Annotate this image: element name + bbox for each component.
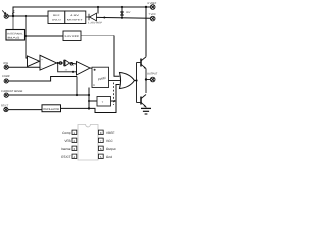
svg-text:8 VREF: 8 VREF — [148, 2, 157, 5]
svg-text:R: R — [93, 84, 95, 87]
svg-text:-: - — [41, 66, 42, 70]
svg-text:RT/CT: RT/CT — [1, 105, 9, 108]
svg-text:REF: REF — [53, 14, 61, 17]
svg-text:Output: Output — [106, 147, 116, 151]
svg-text:Gnd: Gnd — [106, 155, 112, 159]
svg-text:OUTPUT: OUTPUT — [147, 73, 158, 76]
svg-text:MOSFET: MOSFET — [67, 18, 84, 21]
svg-text:VFB: VFB — [3, 62, 8, 65]
svg-text:INTERNAL: INTERNAL — [7, 32, 23, 35]
svg-text:COMP: COMP — [2, 75, 10, 78]
svg-text:CURRENT SENSE: CURRENT SENSE — [1, 90, 23, 93]
svg-text:OSCILLATOR: OSCILLATOR — [43, 108, 59, 111]
svg-text:RT/CT: RT/CT — [61, 155, 70, 159]
svg-text:1.25V REF: 1.25V REF — [88, 22, 103, 25]
svg-text:36V: 36V — [126, 11, 131, 14]
svg-text:VCC: VCC — [106, 139, 113, 143]
svg-text:5.0V REF: 5.0V REF — [65, 35, 80, 38]
svg-text:VREF: VREF — [106, 131, 115, 135]
svg-text:UVLO: UVLO — [52, 18, 61, 21]
svg-text:Comp: Comp — [62, 131, 71, 135]
svg-text:4.9V: 4.9V — [70, 14, 80, 17]
svg-text:T: T — [102, 100, 104, 104]
svg-text:7 VCC: 7 VCC — [149, 13, 157, 16]
svg-text:BIAS: BIAS — [7, 36, 20, 39]
svg-text:Isense: Isense — [61, 147, 71, 151]
svg-text:VFB: VFB — [64, 139, 70, 143]
